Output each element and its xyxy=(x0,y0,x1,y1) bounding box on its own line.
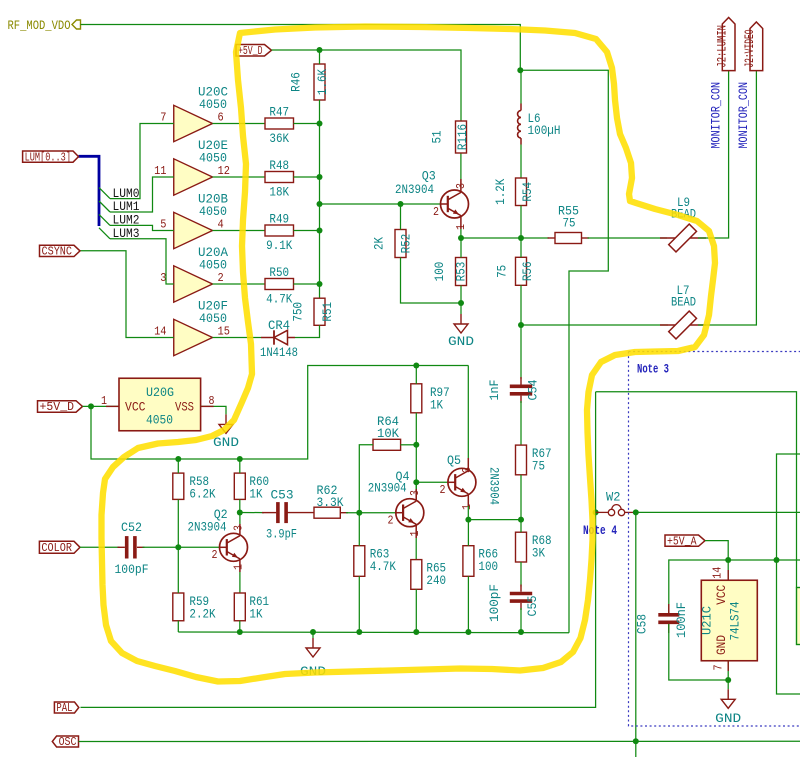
global label J2:VIDEO xyxy=(743,22,763,71)
svg-text:2: 2 xyxy=(433,205,439,219)
wire Q4 collector xyxy=(415,482,417,489)
resistor R46 1.6K xyxy=(289,64,331,100)
transistor Q2 2N3904 xyxy=(188,507,248,561)
pin stub R55 right xyxy=(582,237,590,239)
sheet (partial, bottom right) xyxy=(797,588,800,645)
hierarchical label RF_MOD_VDO xyxy=(8,18,81,33)
junction xyxy=(458,235,464,241)
junction xyxy=(356,629,362,635)
pin stub U20G pin8 xyxy=(201,405,214,407)
svg-text:18K: 18K xyxy=(269,185,289,200)
buffer U20B (4050) xyxy=(174,192,228,249)
junction xyxy=(413,363,419,369)
svg-text:74LS74: 74LS74 xyxy=(728,601,743,640)
wire R48 left xyxy=(213,176,266,178)
svg-text:75: 75 xyxy=(495,265,510,278)
wire U20G pin8 xyxy=(201,406,226,414)
svg-text:51: 51 xyxy=(430,130,445,143)
bus entry LUM2 xyxy=(99,214,110,225)
wire Q3 emitter xyxy=(460,229,462,238)
junction xyxy=(517,67,523,73)
wire R58 top xyxy=(177,459,179,473)
wire R61 bottom xyxy=(239,621,241,632)
wire R62 to Q4 base xyxy=(346,512,396,514)
wire R48 right to rail xyxy=(294,176,320,178)
global label CSYNC xyxy=(40,245,81,258)
svg-text:C58: C58 xyxy=(635,614,650,634)
global label LUM[0..3] xyxy=(23,151,79,164)
wire R47 left xyxy=(213,123,266,125)
svg-text:3.3K: 3.3K xyxy=(317,495,344,510)
bus entry LUM0 xyxy=(99,188,110,199)
junction xyxy=(725,557,731,563)
wire +5V_A feed xyxy=(705,541,728,560)
svg-text:3.9pF: 3.9pF xyxy=(266,527,297,542)
svg-text:GND: GND xyxy=(715,711,741,726)
wire Q4 collector lead xyxy=(415,489,417,501)
resistor R60 1K xyxy=(234,473,269,502)
transistor Q3 2N3904 xyxy=(395,168,469,218)
wire U20F pin15 to CR4 xyxy=(213,337,262,339)
pin stub R62 right xyxy=(340,512,348,514)
resistor R63 4.7K xyxy=(354,546,396,577)
svg-text:W2: W2 xyxy=(606,490,621,505)
svg-text:2: 2 xyxy=(218,271,224,285)
svg-text:C53: C53 xyxy=(271,487,294,502)
resistor R51 750 xyxy=(291,298,336,325)
wire R64 left to Q4 base xyxy=(359,445,373,513)
svg-text:4.7K: 4.7K xyxy=(266,292,292,307)
wire R97 top xyxy=(415,366,417,384)
power label +5V_D (U20G) xyxy=(38,401,83,414)
svg-text:3: 3 xyxy=(232,525,246,531)
svg-text:5: 5 xyxy=(160,218,166,232)
resistor R68 3K xyxy=(516,532,552,562)
wire Q3 emitter to video rail xyxy=(461,237,521,239)
resistor R58 6.2K xyxy=(173,473,216,502)
wire from node to right rail xyxy=(520,70,608,632)
junction xyxy=(317,47,323,53)
svg-text:2K: 2K xyxy=(372,237,387,250)
wire L7 to J2:VIDEO xyxy=(698,71,756,325)
wire +5V_A rail xyxy=(669,560,800,614)
wire R50 left xyxy=(213,283,266,285)
resistor R66 100 xyxy=(463,546,498,577)
wire LUM2 to U20B pin5 xyxy=(110,225,174,230)
junction xyxy=(317,201,323,207)
resistor R97 1K xyxy=(411,384,450,413)
wire Q4 emitter xyxy=(415,538,417,560)
svg-text:Note 4: Note 4 xyxy=(583,523,617,538)
resistor R55 75 xyxy=(555,204,582,244)
svg-text:4.7K: 4.7K xyxy=(370,559,396,574)
ground U21C xyxy=(715,680,741,726)
svg-text:100: 100 xyxy=(432,262,447,282)
IC U20G 4050 (power pins) xyxy=(119,378,201,431)
wire R46 bottom to rail xyxy=(319,100,321,124)
junction xyxy=(175,544,181,550)
svg-text:PAL: PAL xyxy=(56,702,72,715)
wire R49 right to rail xyxy=(294,230,320,232)
wire R67 bottom xyxy=(520,475,522,520)
svg-text:1.2K: 1.2K xyxy=(493,178,508,204)
svg-text:2N3904: 2N3904 xyxy=(368,481,407,496)
svg-text:11: 11 xyxy=(154,164,166,178)
wire node to L6 xyxy=(520,70,522,103)
junction xyxy=(413,479,419,485)
svg-text:2: 2 xyxy=(388,514,394,528)
wire Q3 emitter to R53 xyxy=(460,238,462,258)
resistor R67 75 xyxy=(516,445,552,475)
global label PAL xyxy=(54,702,78,715)
wire R58 bottom xyxy=(177,499,179,547)
global label J2:LUMIN xyxy=(715,18,735,71)
svg-text:7: 7 xyxy=(711,665,725,671)
bus LUM[0..3] xyxy=(79,156,100,226)
wire L6 to R54 xyxy=(520,145,522,179)
svg-text:R56: R56 xyxy=(520,261,535,281)
resistor R59 2.2K xyxy=(173,593,216,622)
wire C54 top xyxy=(520,325,522,379)
capacitor C53 3.9pF xyxy=(266,487,297,541)
resistor R49 9.1K xyxy=(265,212,294,254)
svg-text:C54: C54 xyxy=(526,379,541,400)
junction xyxy=(237,629,243,635)
svg-text:C55: C55 xyxy=(525,596,540,617)
svg-text:Note 3: Note 3 xyxy=(637,361,669,376)
pin stub U20G pin1 xyxy=(106,405,119,407)
wire +5V_D to R116 xyxy=(272,50,462,121)
svg-text:BEAD: BEAD xyxy=(671,295,696,310)
wire CSYNC to U20F pin14 xyxy=(80,251,174,338)
junction xyxy=(310,629,316,635)
wire LUM3 to U20A pin3 xyxy=(110,239,174,284)
svg-text:100µH: 100µH xyxy=(528,123,561,138)
wire R52 bottom xyxy=(401,258,462,304)
capacitor C54 1nF xyxy=(487,379,541,400)
resistor R116 51 xyxy=(430,121,471,153)
wire LUM0 to U20C pin7 xyxy=(110,124,174,199)
pin stub C53 left xyxy=(262,512,276,514)
junction xyxy=(317,121,323,127)
wire Q2 collector lead xyxy=(239,524,241,536)
svg-text:MONITOR_CON: MONITOR_CON xyxy=(709,82,723,149)
wire U21C pin14 xyxy=(727,560,729,580)
svg-text:14: 14 xyxy=(710,567,724,579)
svg-text:3: 3 xyxy=(408,490,422,496)
pin stub R55 left xyxy=(548,237,556,239)
wire R52 top xyxy=(400,204,402,230)
wire Q5 emitter lead xyxy=(467,494,469,506)
wire RF_MOD_VDO net top xyxy=(81,25,521,71)
wire Q5 base xyxy=(416,481,448,483)
svg-text:1.6K: 1.6K xyxy=(315,69,330,95)
svg-text:36K: 36K xyxy=(269,131,289,146)
svg-text:R52: R52 xyxy=(399,234,414,254)
svg-text:CR4: CR4 xyxy=(268,318,290,333)
wire video to W2 (from corner) xyxy=(595,392,597,513)
svg-text:2N3904: 2N3904 xyxy=(395,182,434,197)
wire R66 top xyxy=(467,520,469,546)
svg-text:LUM3: LUM3 xyxy=(113,226,140,241)
wire PAL riser xyxy=(81,512,596,707)
wire R63 top xyxy=(358,513,360,546)
bus entry LUM1 xyxy=(99,201,110,212)
svg-text:C52: C52 xyxy=(121,520,142,535)
wire +5V_D down to lower rail xyxy=(91,366,468,460)
wire Q3 collector lead xyxy=(460,179,462,192)
resistor R48 18K xyxy=(265,158,294,200)
bus entry LUM3 xyxy=(99,228,110,239)
junction xyxy=(633,509,639,515)
junction xyxy=(237,456,243,462)
wire Q5 collector lead xyxy=(467,458,469,471)
junction xyxy=(633,738,639,744)
svg-text:LUM[0..3]: LUM[0..3] xyxy=(25,151,71,164)
buffer U20C (4050) xyxy=(174,85,228,142)
svg-text:3: 3 xyxy=(460,467,474,473)
svg-text:1K: 1K xyxy=(249,487,262,502)
wire Q5 collector xyxy=(467,366,469,459)
junction xyxy=(413,442,419,448)
svg-text:750: 750 xyxy=(291,302,306,322)
resistor R65 240 xyxy=(411,560,446,590)
resistor R47 36K xyxy=(265,105,294,147)
wire +5V_D to U20G pin1 xyxy=(83,405,120,407)
capacitor C58 100nF xyxy=(635,602,690,638)
global label OSC xyxy=(52,736,78,749)
wire R53 bottom xyxy=(460,286,462,304)
svg-text:14: 14 xyxy=(154,325,166,339)
wire Q2 emitter lead xyxy=(239,559,241,572)
note box (dashed) xyxy=(629,352,800,727)
svg-text:1: 1 xyxy=(408,531,422,537)
svg-text:1nF: 1nF xyxy=(487,380,502,401)
capacitor C52 100pF xyxy=(115,520,149,577)
svg-text:VSS: VSS xyxy=(175,400,194,415)
wire R97 to Q5 base xyxy=(415,445,417,501)
svg-text:OSC: OSC xyxy=(59,736,77,749)
wire Q2 emitter xyxy=(239,572,241,593)
svg-text:VCC: VCC xyxy=(125,400,146,415)
resistor R54 1.2K xyxy=(493,178,535,206)
svg-text:100: 100 xyxy=(478,559,498,574)
resistor R56 75 xyxy=(495,257,536,285)
pin stub C52 right xyxy=(137,546,145,548)
svg-text:100nF: 100nF xyxy=(674,602,689,638)
wire Q3 emitter lead xyxy=(460,216,462,229)
svg-text:1: 1 xyxy=(101,394,107,408)
svg-text:R116: R116 xyxy=(455,124,470,150)
svg-text:2.2K: 2.2K xyxy=(189,607,215,622)
svg-text:6.2K: 6.2K xyxy=(189,487,215,502)
ferrite bead L9 xyxy=(660,195,706,252)
svg-text:CSYNC: CSYNC xyxy=(42,246,73,259)
svg-text:R48: R48 xyxy=(269,158,289,173)
svg-text:J2:VIDEO: J2:VIDEO xyxy=(743,30,757,68)
wire OSC line xyxy=(79,740,800,742)
svg-text:4050: 4050 xyxy=(146,412,173,427)
ground Q3 xyxy=(448,303,474,349)
svg-text:R49: R49 xyxy=(269,212,289,227)
svg-text:1N4148: 1N4148 xyxy=(260,345,298,360)
svg-text:R54: R54 xyxy=(520,182,535,202)
inductor L6 100uH xyxy=(518,104,561,145)
wire R64 right xyxy=(401,444,417,446)
wire W2 down to OSC line xyxy=(635,512,637,757)
diode CR4 1N4148 xyxy=(260,318,298,360)
svg-text:+5V_A: +5V_A xyxy=(667,535,697,548)
svg-text:7: 7 xyxy=(160,111,166,125)
wire R97 bottom xyxy=(415,413,417,445)
wire Q3 collector xyxy=(460,153,462,179)
highlighter annotation (yellow loop) xyxy=(102,27,716,682)
svg-text:1: 1 xyxy=(232,564,246,570)
jumper W2 xyxy=(596,490,636,516)
svg-text:15: 15 xyxy=(218,325,230,339)
wire ground rail (lower) xyxy=(178,631,569,634)
junction xyxy=(593,509,599,515)
wire C58 bottom xyxy=(669,624,728,680)
junction xyxy=(518,322,524,328)
svg-text:2N3904: 2N3904 xyxy=(487,467,502,505)
wire C52 to Q2 base xyxy=(143,546,220,548)
ground U20G xyxy=(213,414,239,450)
svg-text:RF_MOD_VDO: RF_MOD_VDO xyxy=(8,18,71,33)
svg-text:U21C: U21C xyxy=(699,606,714,635)
junction xyxy=(413,629,419,635)
power label +5V_A xyxy=(665,535,705,548)
junction xyxy=(774,557,780,563)
wire R68 top xyxy=(520,520,522,533)
svg-text:1K: 1K xyxy=(249,607,262,622)
wire R59 top xyxy=(177,547,179,593)
resistor R52 2K xyxy=(372,230,414,258)
wire R47 right to rail xyxy=(294,123,320,125)
junction xyxy=(518,235,524,241)
junction xyxy=(237,510,243,516)
wire LUM1 to U20E pin11 xyxy=(110,177,174,212)
wire R50 right to rail xyxy=(294,283,320,285)
buffer U20F (4050) xyxy=(174,299,228,356)
wire W2 right xyxy=(636,511,800,513)
wire U21C pin7 xyxy=(727,661,729,680)
junction xyxy=(458,300,464,306)
global label COLOR xyxy=(39,541,80,555)
junction xyxy=(317,228,323,234)
svg-text:GND: GND xyxy=(448,334,474,349)
wire R63 bottom xyxy=(358,576,360,632)
pin stub C54 bottom xyxy=(520,396,522,403)
wire C53 to R62 xyxy=(286,512,314,514)
svg-text:100pF: 100pF xyxy=(487,584,502,622)
svg-text:R51: R51 xyxy=(320,302,335,322)
svg-text:1K: 1K xyxy=(430,397,443,412)
resistor R61 1K xyxy=(234,593,269,622)
junction xyxy=(317,174,323,180)
wire to R55 xyxy=(521,237,549,239)
transistor Q4 2N3904 xyxy=(368,469,424,527)
buffer U20E (4050) xyxy=(174,138,228,195)
wire R55 to L9 xyxy=(588,237,668,239)
wire COLOR to C52 xyxy=(80,546,120,548)
svg-text:2: 2 xyxy=(440,483,446,497)
junction xyxy=(356,510,362,516)
svg-text:2N3904: 2N3904 xyxy=(188,519,227,534)
wire Q5 emitter xyxy=(467,506,469,520)
pin stub C52 left xyxy=(118,546,125,548)
wire R56 top xyxy=(520,238,522,257)
svg-text:6: 6 xyxy=(218,111,224,125)
svg-text:240: 240 xyxy=(426,573,446,588)
wire Q2 collector to C53 xyxy=(240,512,264,514)
pin stub C55 top xyxy=(520,585,522,592)
svg-text:MONITOR_CON: MONITOR_CON xyxy=(737,82,751,149)
wire C54 to R67 xyxy=(520,401,522,445)
svg-text:R53: R53 xyxy=(454,262,469,282)
power label +5V_D (top) xyxy=(236,45,272,58)
IC U21C 74LS74 (power pins) xyxy=(699,580,757,661)
junction xyxy=(518,629,524,635)
junction xyxy=(518,517,524,523)
wire R54 bottom xyxy=(520,206,522,239)
svg-text:GND: GND xyxy=(213,435,239,450)
transistor Q5 2N3904 xyxy=(447,453,502,505)
capacitor C55 100pF xyxy=(487,584,540,622)
resistor R62 3.3K xyxy=(314,483,344,518)
svg-text:10K: 10K xyxy=(377,426,399,441)
wire R46 top xyxy=(319,50,321,64)
svg-text:R47: R47 xyxy=(269,105,289,120)
wire R65 bottom xyxy=(415,589,417,632)
svg-text:COLOR: COLOR xyxy=(41,542,72,555)
resistor R50 4.7K xyxy=(265,265,294,307)
wire R60 bottom xyxy=(239,499,241,512)
junction xyxy=(398,201,404,207)
wire right section feed xyxy=(596,392,797,588)
svg-text:1: 1 xyxy=(460,504,474,510)
junction xyxy=(175,456,181,462)
wire R49 left xyxy=(213,230,266,232)
svg-text:2: 2 xyxy=(212,548,218,562)
svg-text:100pF: 100pF xyxy=(115,562,149,577)
ground lower rail xyxy=(300,632,326,679)
svg-text:+5V_D: +5V_D xyxy=(238,45,263,58)
svg-text:9.1K: 9.1K xyxy=(266,238,292,253)
pin stub C58 xyxy=(668,604,670,613)
junction xyxy=(465,629,471,635)
pin stub C55 bottom xyxy=(520,603,522,610)
svg-text:75: 75 xyxy=(532,459,545,474)
svg-text:3K: 3K xyxy=(532,546,545,561)
wire Q4 emitter lead xyxy=(415,524,417,538)
wire +5V rail of R46/R47-R50 xyxy=(319,124,321,299)
resistor R53 100 xyxy=(432,258,469,286)
wire R59 bottom xyxy=(177,621,179,632)
svg-text:J2:LUMIN: J2:LUMIN xyxy=(715,25,729,68)
wire R68 bottom xyxy=(520,562,522,587)
wire R51 bottom xyxy=(295,325,320,337)
wire to L7 xyxy=(521,324,668,326)
wire rail to Q3 base xyxy=(320,203,441,205)
svg-text:12: 12 xyxy=(218,164,230,178)
ferrite bead L7 xyxy=(660,283,706,339)
svg-text:R50: R50 xyxy=(269,265,289,280)
wire Q2 collector xyxy=(239,513,241,525)
pin stub U21C pin7 xyxy=(727,661,729,671)
svg-text:Q5: Q5 xyxy=(447,453,461,468)
svg-text:+5V_D: +5V_D xyxy=(40,401,75,414)
